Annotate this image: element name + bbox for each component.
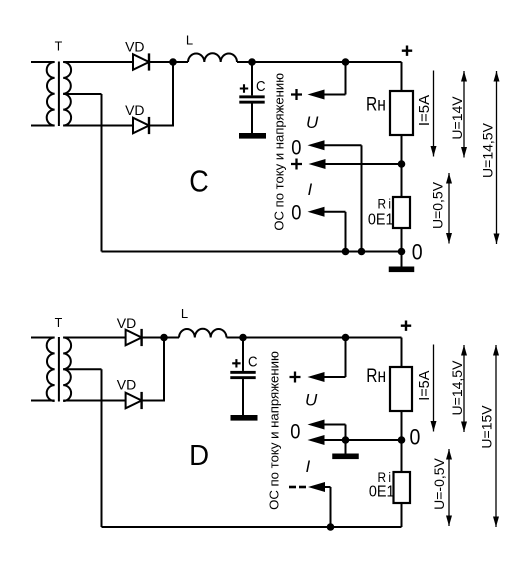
wire capacitor to ground (D) xyxy=(242,379,244,416)
node feedback tap (D) xyxy=(342,334,350,342)
wire Rn to junction (C) xyxy=(401,135,403,164)
ground feedback (D) xyxy=(332,454,359,460)
svg-text:C: C xyxy=(256,77,266,94)
wire junction to feedback (D) xyxy=(322,439,402,441)
svg-text:T: T xyxy=(55,40,63,54)
circuit C: transformer T xyxy=(47,62,55,126)
feedback arrow 0U (C) xyxy=(308,140,325,150)
resistor Rn (C) xyxy=(390,91,413,135)
ground capacitor (D) xyxy=(231,415,258,421)
feedback arrow +U (D) xyxy=(308,372,325,382)
inductor L (C) xyxy=(188,53,237,62)
svg-text:ОС по току и напряжению: ОС по току и напряжению xyxy=(271,73,286,231)
wire center tap (D) xyxy=(63,368,101,370)
svg-text:U=-0,5V: U=-0,5V xyxy=(431,457,447,509)
feedback arrow +U (C) xyxy=(308,90,325,100)
label + capacitor (C) xyxy=(240,84,248,92)
feedback arrow 0I (C) xyxy=(308,207,325,217)
label + output (D) xyxy=(401,321,411,331)
feedback arrow 0b (D) xyxy=(308,435,325,445)
node bottom feedback 2 (C) xyxy=(342,248,350,256)
label + feedback U (D) xyxy=(290,372,301,383)
label + feedback U (C) xyxy=(291,89,302,100)
arrow U=15V (D) xyxy=(495,345,497,527)
wire center tap down to bottom rail (C) xyxy=(101,94,103,252)
wire secondary bottom lead (D) xyxy=(63,400,125,402)
svg-text:C: C xyxy=(248,353,258,370)
label + capacitor (D) xyxy=(232,359,240,367)
svg-text:VD: VD xyxy=(125,38,144,54)
svg-text:U: U xyxy=(305,391,318,410)
node output mid junction 0 (D) xyxy=(398,436,406,444)
svg-text:T: T xyxy=(55,316,63,330)
svg-text:U=14V: U=14V xyxy=(449,96,465,140)
node feedback ground (D) xyxy=(342,436,350,444)
svg-text:I: I xyxy=(308,180,313,199)
wire node A down to VD2 (D) xyxy=(163,338,165,401)
wire center tap down to bottom rail (D) xyxy=(101,369,103,527)
svg-text:U=15V: U=15V xyxy=(479,405,495,449)
capacitor C (C) xyxy=(239,95,264,98)
wire capacitor lead (C) xyxy=(251,62,253,95)
svg-text:0: 0 xyxy=(291,201,301,225)
wire junction to Ri (D) xyxy=(401,440,403,472)
svg-text:L: L xyxy=(186,32,193,47)
svg-text:U=14,5V: U=14,5V xyxy=(480,122,496,178)
wire secondary bottom lead (C) xyxy=(63,125,133,127)
wire ground stub (C) xyxy=(401,252,403,268)
wire center tap (C) xyxy=(63,93,101,95)
wire junction to Ri (C) xyxy=(401,164,403,197)
wire output rail down (C) xyxy=(401,62,403,91)
wire VD2 cathode up (D) xyxy=(142,400,165,402)
node bottom feedback (D) xyxy=(327,523,335,531)
wire feedback I down (D) xyxy=(330,487,332,527)
node output mid junction (C) xyxy=(398,160,406,168)
circuit D: transformer T xyxy=(47,338,55,402)
wire primary bottom lead (C) xyxy=(31,125,55,127)
svg-text:ОС по току и напряжению: ОС по току и напряжению xyxy=(267,351,282,510)
wire secondary top lead (D) xyxy=(63,337,125,339)
svg-text:U: U xyxy=(306,113,319,132)
arrow U=-0,5V (D) xyxy=(448,449,450,526)
node bottom feedback 1 (C) xyxy=(358,248,366,256)
capacitor C (D) xyxy=(230,371,255,374)
inductor L (D) xyxy=(179,329,227,338)
wire primary top lead (D) xyxy=(31,337,55,339)
svg-text:0: 0 xyxy=(291,136,301,160)
wire feedback 0a down (D) xyxy=(345,425,347,441)
diode VD1 (C) xyxy=(133,54,149,70)
label minus dashes (D) xyxy=(289,486,296,489)
diode VD2 (C) xyxy=(133,118,149,134)
wire capacitor lead (D) xyxy=(242,338,244,371)
feedback arrow I (D) xyxy=(308,482,325,492)
wire feedback 0I down (C) xyxy=(345,212,347,252)
resistor Ri (C) xyxy=(393,197,410,228)
wire top rail (D) xyxy=(227,337,402,339)
svg-text:0: 0 xyxy=(290,420,300,444)
node bottom output (C) xyxy=(398,248,406,256)
wire node A down to VD2 (C) xyxy=(172,62,174,126)
diode VD1 (D) xyxy=(126,330,142,346)
ground output (C) xyxy=(389,267,415,273)
label + output (C) xyxy=(402,46,412,56)
wire VD1 cathode to node (D) xyxy=(142,337,179,339)
arrow U=0,5V (C) xyxy=(448,173,450,244)
node capacitor tap (C) xyxy=(248,58,256,66)
wire Ri to bottom rail (D) xyxy=(401,503,403,527)
svg-text:U=14,5V: U=14,5V xyxy=(449,360,465,416)
svg-text:VD: VD xyxy=(117,315,136,331)
wire Rn to junction (D) xyxy=(401,411,403,440)
wire Ri to bottom rail (C) xyxy=(401,228,403,252)
wire VD1 cathode to node (C) xyxy=(149,61,188,63)
feedback arrow 0a (D) xyxy=(308,420,325,430)
wire feedback +U up (D) xyxy=(345,338,347,378)
svg-text:Ri: Ri xyxy=(378,196,394,212)
arrow U=14V (C) xyxy=(463,71,465,158)
wire primary bottom lead (D) xyxy=(31,400,55,402)
wire bottom rail (C) xyxy=(102,251,402,253)
svg-text:I=5A: I=5A xyxy=(416,95,433,126)
wire Rn-Ri junction to feedback (C) xyxy=(322,163,402,165)
svg-text:Rн: Rн xyxy=(366,365,386,387)
svg-text:0: 0 xyxy=(410,425,421,450)
wire top rail (C) xyxy=(237,61,402,63)
node feedback tap (C) xyxy=(342,58,350,66)
wire feedback 0U down (C) xyxy=(361,145,363,251)
wire capacitor to ground (C) xyxy=(251,104,253,134)
svg-text:VD: VD xyxy=(125,102,144,118)
wire VD2 cathode up (C) xyxy=(149,125,174,127)
svg-text:U=0,5V: U=0,5V xyxy=(430,181,446,229)
wire secondary top lead (C) xyxy=(63,61,133,63)
wire ground stub (D) xyxy=(345,440,347,454)
label + feedback I (C) xyxy=(291,159,302,170)
arrow I=5A (C) xyxy=(433,71,435,157)
arrow I=5A (D) xyxy=(433,345,435,432)
arrow U=14,5V (C) xyxy=(496,71,498,244)
wire feedback +U up (C) xyxy=(345,62,347,95)
node junction A (C) xyxy=(169,58,177,66)
svg-text:0Е1: 0Е1 xyxy=(368,211,394,229)
ground capacitor (C) xyxy=(239,133,266,139)
svg-text:VD: VD xyxy=(117,377,136,393)
svg-text:C: C xyxy=(189,165,208,199)
wire bottom rail (D) xyxy=(102,526,402,528)
svg-text:Rн: Rн xyxy=(366,93,386,115)
svg-text:D: D xyxy=(189,440,209,471)
wire output rail down (D) xyxy=(401,338,403,368)
svg-text:0: 0 xyxy=(412,240,423,265)
feedback arrow +I (C) xyxy=(309,159,326,169)
svg-text:I=5A: I=5A xyxy=(417,370,433,401)
svg-text:0Е1: 0Е1 xyxy=(369,483,395,501)
resistor Ri (D) xyxy=(394,472,411,503)
svg-text:L: L xyxy=(181,306,188,321)
diode VD2 (D) xyxy=(126,393,142,409)
wire primary top lead (C) xyxy=(31,61,55,63)
node junction A (D) xyxy=(160,334,168,342)
resistor Rn (D) xyxy=(390,367,412,411)
arrow U=14,5V (D) xyxy=(463,345,465,432)
node capacitor tap (D) xyxy=(239,334,247,342)
svg-text:I: I xyxy=(306,457,311,476)
